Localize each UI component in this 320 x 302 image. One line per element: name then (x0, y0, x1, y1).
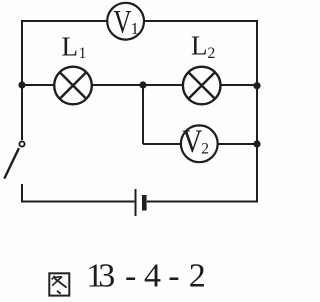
caption: 图 character drawn as strokes (49, 273, 69, 295)
battery (136, 189, 145, 216)
svg-text:V: V (113, 4, 131, 40)
wire: V2 branch vertical (142, 85, 144, 144)
battery long plate (+) (135, 189, 137, 216)
switch S (4, 141, 24, 178)
node: left-middle junction (18, 81, 25, 88)
svg-text:2: 2 (208, 45, 216, 62)
svg-text:2: 2 (201, 140, 209, 157)
wire: bottom left with switch riser (22, 184, 134, 202)
svg-text:L: L (191, 30, 208, 60)
svg-text:L: L (62, 31, 79, 61)
lamp L2 (183, 67, 221, 105)
wire: middle horizontal (22, 84, 257, 86)
svg-text:1: 1 (131, 19, 139, 38)
wire: top horizontal (21, 20, 257, 22)
wire: right vertical (256, 20, 258, 202)
label L2 (191, 30, 215, 62)
wire: bottom right (147, 201, 258, 203)
voltmeter V1 (107, 3, 144, 41)
lamp L1 (54, 67, 92, 105)
label L1 (62, 31, 87, 62)
node: middle junction to V2 branch (139, 81, 146, 88)
svg-text:1: 1 (79, 45, 87, 62)
wire: V2 branch horizontal (143, 143, 257, 145)
node: right-middle junction (253, 82, 260, 89)
voltmeter V2 (181, 123, 218, 162)
node: right V2-branch junction (253, 140, 260, 147)
svg-text:V: V (182, 123, 202, 160)
battery short plate (-) (142, 195, 147, 211)
svg-text:13-4-2: 13-4-2 (86, 258, 206, 295)
wire: left vertical (21, 20, 23, 140)
